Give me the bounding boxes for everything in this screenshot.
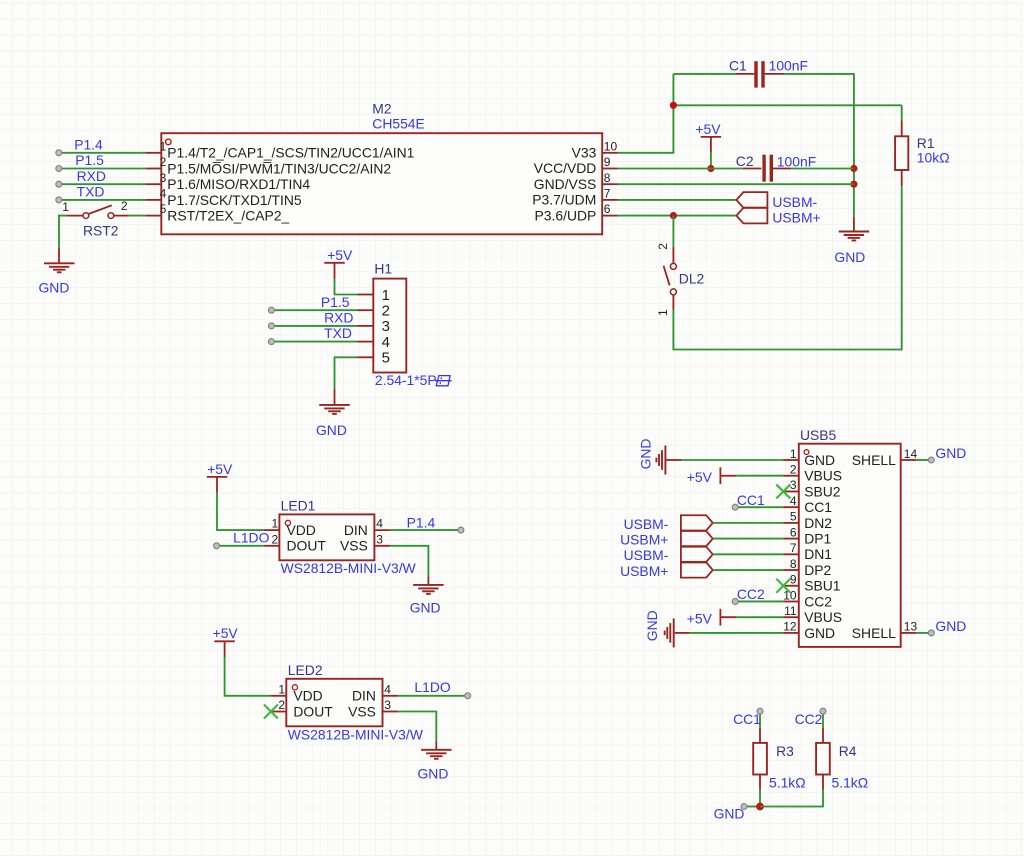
- svg-text:+5V: +5V: [695, 121, 721, 137]
- svg-text:R3: R3: [776, 743, 794, 759]
- wire USB5 pin2: [736, 475, 783, 477]
- svg-text:+5V: +5V: [687, 611, 713, 627]
- wire R1 top: [901, 105, 903, 120]
- wire R1 bottom loop: [673, 186, 901, 349]
- svg-text:GND/VSS: GND/VSS: [534, 176, 597, 192]
- svg-text:USB5: USB5: [800, 427, 837, 443]
- pin 3 H1 stub: [358, 325, 374, 327]
- wire +5V to VCC: [710, 153, 712, 169]
- svg-text:1: 1: [656, 309, 670, 316]
- svg-text:4: 4: [384, 682, 391, 696]
- ground USB5 top: [664, 446, 666, 475]
- ground H1: [319, 404, 350, 406]
- svg-text:DN2: DN2: [804, 515, 832, 531]
- wire USB5 pin7: [713, 553, 784, 555]
- svg-text:9: 9: [604, 155, 611, 169]
- svg-text:P3.6/UDP: P3.6/UDP: [535, 207, 597, 223]
- svg-text:4: 4: [160, 187, 167, 201]
- svg-text:+5V: +5V: [207, 461, 233, 477]
- power +5V USB5 bottom: [719, 609, 721, 626]
- svg-text:DL2: DL2: [679, 270, 705, 286]
- pin 11 USB5 stub: [784, 616, 799, 618]
- svg-text:CC2: CC2: [795, 711, 823, 727]
- ground stem USB5 top: [666, 459, 681, 461]
- wire VSS row: [618, 183, 854, 185]
- capacitor C1 lead right: [765, 73, 785, 75]
- svg-text:H1: H1: [374, 261, 392, 277]
- svg-text:7: 7: [790, 541, 797, 555]
- wire C1 right to GND rail: [784, 74, 854, 217]
- svg-text:P1.4: P1.4: [74, 137, 103, 153]
- svg-text:DN1: DN1: [804, 546, 832, 562]
- svg-text:2: 2: [272, 532, 279, 546]
- svg-text:1: 1: [382, 287, 390, 304]
- power +5V LED1: [207, 476, 227, 478]
- svg-text:5.1kΩ: 5.1kΩ: [769, 775, 806, 791]
- pin 1 indicator dot: [166, 139, 172, 145]
- svg-text:L1DO: L1DO: [414, 679, 450, 695]
- svg-text:GND: GND: [644, 610, 660, 641]
- wire R3 bottom: [759, 790, 761, 807]
- svg-text:C1: C1: [729, 57, 747, 73]
- svg-text:2: 2: [160, 155, 167, 169]
- svg-text:5.1kΩ: 5.1kΩ: [832, 775, 869, 791]
- pin 5 M2 left stub: [146, 215, 162, 217]
- wire UDP row: [618, 215, 737, 217]
- wire L1DO LED2: [398, 695, 468, 697]
- svg-text:VDD: VDD: [287, 522, 316, 538]
- resistor R4 lead top: [822, 728, 824, 743]
- wire UDM row: [618, 199, 737, 201]
- svg-text:P1.5: P1.5: [75, 152, 104, 168]
- ground USB5 bottom: [673, 618, 675, 647]
- ground stem RST2: [58, 248, 60, 264]
- wire USB5 pin11: [736, 616, 783, 618]
- svg-text:8: 8: [604, 171, 611, 185]
- svg-text:CC1: CC1: [804, 499, 832, 515]
- svg-text:+5V: +5V: [687, 469, 713, 485]
- node open end GND r3: [741, 804, 747, 810]
- pin 3 USB5 stub: [784, 490, 799, 492]
- svg-text:6: 6: [604, 202, 611, 216]
- node open end TXD: [56, 197, 62, 203]
- svg-text:DP1: DP1: [804, 531, 831, 547]
- svg-text:M2: M2: [372, 101, 392, 117]
- svg-text:RST/T2EX_/CAP2_: RST/T2EX_/CAP2_: [167, 208, 289, 224]
- svg-text:+5V: +5V: [213, 625, 239, 641]
- wire R3 to R4: [760, 790, 823, 807]
- svg-text:USBM-: USBM-: [624, 516, 669, 532]
- ground stem right: [853, 217, 855, 232]
- switch RST2 lever: [88, 205, 111, 214]
- led LED1 body: [279, 514, 374, 560]
- pin 7 USB5 stub: [784, 553, 799, 555]
- pin 14 USB5 stub: [901, 459, 916, 461]
- net port USBM+ top: [736, 208, 767, 224]
- wire net P1.4: [59, 152, 146, 154]
- pin 1 indicator LED2: [292, 685, 297, 690]
- svg-text:11: 11: [784, 604, 797, 618]
- svg-text:13: 13: [904, 620, 918, 634]
- node junction +5V/VCC: [707, 165, 714, 172]
- node open end P1.4: [56, 150, 62, 156]
- svg-text:L1DO: L1DO: [233, 530, 269, 546]
- svg-text:3: 3: [160, 171, 167, 185]
- svg-text:USBM+: USBM+: [620, 563, 668, 579]
- capacitor C1 plates: [754, 61, 757, 87]
- node open end CC2: [732, 598, 738, 604]
- svg-text:10: 10: [604, 139, 618, 153]
- capacitor C1 lead left: [736, 73, 754, 75]
- resistor R1 lead bottom: [901, 170, 903, 186]
- wire DL2 top: [672, 216, 674, 247]
- svg-text:DIN: DIN: [344, 522, 368, 538]
- pin 10 M2 right stub: [602, 152, 618, 154]
- node open end CC1: [732, 504, 738, 510]
- net port USBM+ usb: [681, 531, 713, 546]
- ground stem LED2: [435, 742, 437, 750]
- node open end RXD: [56, 181, 62, 187]
- svg-text:1: 1: [160, 139, 167, 153]
- svg-text:P1.5: P1.5: [321, 294, 350, 310]
- svg-text:DOUT: DOUT: [293, 703, 333, 719]
- svg-text:SHELL: SHELL: [852, 625, 896, 641]
- svg-text:GND: GND: [935, 618, 966, 634]
- wire H1 net RXD: [271, 325, 357, 327]
- wire USB5 pin8: [713, 569, 784, 571]
- node junction R3/R4 gnd: [756, 803, 764, 811]
- pin 2 LED1 stub: [264, 545, 280, 547]
- pin 8 M2 right stub: [602, 183, 618, 185]
- svg-text:7: 7: [604, 187, 611, 201]
- resistor R4 lead bottom: [822, 775, 824, 790]
- switch DL2 contact 2: [670, 263, 676, 269]
- wire RST2 left: [59, 216, 66, 248]
- ground LED2: [421, 749, 452, 751]
- svg-text:RXD: RXD: [324, 310, 353, 326]
- svg-text:P3.7/UDM: P3.7/UDM: [532, 192, 596, 208]
- svg-text:GND: GND: [714, 806, 745, 822]
- svg-text:3: 3: [382, 318, 390, 335]
- svg-text:GND: GND: [418, 765, 449, 781]
- svg-text:CC1: CC1: [733, 711, 761, 727]
- svg-text:RST2: RST2: [83, 222, 119, 238]
- power +5V LED2: [214, 640, 234, 642]
- wire SHELL bottom: [916, 632, 931, 634]
- node open end SHELL top: [928, 457, 934, 463]
- svg-text:GND: GND: [834, 249, 865, 265]
- ground stem LED1: [427, 577, 429, 585]
- switch RST2 lead right: [114, 215, 129, 217]
- node open end H1 TXD: [268, 339, 274, 345]
- pin 4 M2 left stub: [146, 199, 162, 201]
- pin 2 H1 stub: [358, 309, 374, 311]
- pin 1 LED1 stub: [264, 529, 280, 531]
- svg-text:2: 2: [278, 698, 285, 712]
- power +5V H1: [324, 262, 344, 264]
- wire +5V to H1 pin1: [335, 279, 358, 295]
- svg-text:12: 12: [783, 620, 797, 634]
- svg-text:2.54-1*5P: 2.54-1*5P: [375, 372, 437, 388]
- svg-text:2: 2: [790, 463, 797, 477]
- svg-text:P1.4/T2_/CAP1_/SCS/TIN2/UCC1/A: P1.4/T2_/CAP1_/SCS/TIN2/UCC1/AIN1: [167, 145, 414, 161]
- svg-text:LED2: LED2: [288, 662, 323, 678]
- wire +5V to LED1 VDD: [217, 493, 264, 530]
- wire H1 net TXD: [271, 341, 357, 343]
- wire LED1 VSS to gnd: [390, 546, 428, 577]
- node junction VSS/GND rail: [850, 181, 857, 188]
- svg-text:4: 4: [382, 334, 390, 351]
- svg-text:VBUS: VBUS: [804, 609, 842, 625]
- wire net TXD: [59, 199, 146, 201]
- wire top rail to R1: [673, 104, 901, 106]
- svg-text:C2: C2: [736, 153, 754, 169]
- wire RST2 to pin5: [129, 215, 146, 217]
- resistor R3 body: [753, 743, 767, 775]
- pin 9 M2 right stub: [602, 168, 618, 170]
- svg-text:GND: GND: [39, 279, 70, 295]
- svg-text:USBM-: USBM-: [624, 547, 669, 563]
- ground RST2: [44, 262, 74, 264]
- svg-text:USBM-: USBM-: [772, 194, 817, 210]
- wire LED2 VSS to gnd: [398, 712, 436, 742]
- node open end SHELL bottom: [928, 630, 934, 636]
- svg-text:DOUT: DOUT: [287, 538, 327, 554]
- power +5V main: [701, 136, 721, 138]
- svg-text:P1.5/MO̅SI/PWM̅1/TIN3/UCC2/AIN: P1.5/MO̅SI/PWM̅1/TIN3/UCC2/AIN2: [167, 160, 391, 176]
- svg-text:SBU1: SBU1: [804, 578, 841, 594]
- pin 3 LED2 stub: [383, 711, 399, 713]
- pin 7 M2 right stub: [602, 199, 618, 201]
- node junction UDP/DL2: [670, 212, 677, 219]
- pin 2 LED2 stub: [271, 711, 287, 713]
- switch RST2 contact 2: [108, 213, 114, 219]
- net port USBM+ usb: [681, 562, 713, 577]
- svg-text:CC1: CC1: [737, 492, 765, 508]
- pin 5 H1 stub: [358, 356, 374, 358]
- svg-text:V33: V33: [572, 145, 597, 161]
- pin 1 indicator USB5: [804, 450, 809, 455]
- resistor R1 lead top: [901, 120, 903, 136]
- svg-text:2: 2: [121, 199, 128, 213]
- wire USB5 pin5: [713, 522, 784, 524]
- node junction V33/C1/R1: [670, 102, 677, 109]
- ground stem H1: [334, 388, 336, 405]
- pin 4 LED2 stub: [383, 695, 399, 697]
- wire CC2 top: [822, 711, 824, 728]
- switch RST2 lead left: [66, 215, 83, 217]
- wire gnd stub r3: [744, 806, 760, 808]
- resistor R4 body: [816, 743, 830, 775]
- wire C1 left: [673, 73, 736, 75]
- svg-text:DP2: DP2: [804, 562, 831, 578]
- svg-text:GND: GND: [804, 452, 835, 468]
- ground stem USB5 bottom: [675, 632, 690, 634]
- resistor R1 body: [895, 136, 908, 170]
- pin 12 USB5 stub: [784, 632, 799, 634]
- svg-text:P1.7/SCK/TXD1/TIN5: P1.7/SCK/TXD1/TIN5: [167, 192, 302, 208]
- node open end P1.5: [56, 166, 62, 172]
- svg-text:GND: GND: [935, 445, 966, 461]
- connector USB5 body: [799, 444, 901, 647]
- pin 9 USB5 stub: [784, 585, 799, 587]
- wire L1DO LED1: [217, 545, 264, 547]
- wire USB5 CC1: [735, 506, 783, 508]
- wire CC1 top: [759, 711, 761, 728]
- svg-text:14: 14: [904, 447, 918, 461]
- svg-text:CC2: CC2: [737, 586, 765, 602]
- pin 5 USB5 stub: [784, 522, 799, 524]
- wire H1 net P1.5: [271, 309, 357, 311]
- node open end H1 RXD: [268, 323, 274, 329]
- value glyph mu: [435, 376, 452, 386]
- switch DL2 lead bottom: [672, 295, 674, 310]
- wire SHELL top: [916, 459, 931, 461]
- wire net P1.5: [59, 168, 146, 170]
- svg-text:100nF: 100nF: [769, 58, 808, 74]
- svg-text:CC2: CC2: [804, 593, 832, 609]
- node open end L1DO LED1: [214, 543, 220, 549]
- pin 2 USB5 stub: [784, 475, 799, 477]
- resistor R3 lead bottom: [759, 775, 761, 790]
- svg-text:VCC/VDD: VCC/VDD: [534, 160, 597, 176]
- svg-text:1: 1: [790, 447, 797, 461]
- pin 4 USB5 stub: [784, 506, 799, 508]
- svg-text:GND: GND: [804, 625, 835, 641]
- wire net RXD: [59, 183, 146, 185]
- svg-text:10kΩ: 10kΩ: [917, 149, 950, 165]
- svg-text:VDD: VDD: [293, 688, 322, 704]
- svg-text:1: 1: [272, 517, 279, 531]
- capacitor C2 plates: [762, 155, 765, 182]
- node open end CC2 r4: [820, 708, 826, 714]
- header H1 body: [373, 279, 406, 373]
- svg-text:100nF: 100nF: [777, 153, 816, 169]
- pin 4 LED1 stub: [374, 529, 390, 531]
- pin 8 USB5 stub: [784, 569, 799, 571]
- pin 3 M2 left stub: [146, 183, 162, 185]
- pin 1 USB5 stub: [784, 459, 799, 461]
- svg-text:VSS: VSS: [348, 703, 376, 719]
- wire USB5 CC2: [735, 600, 783, 602]
- svg-text:1: 1: [62, 200, 69, 214]
- wire +5V to LED2 VDD: [225, 657, 271, 696]
- resistor R3 lead top: [759, 728, 761, 743]
- svg-text:1: 1: [278, 682, 285, 696]
- ground right rail: [839, 231, 870, 233]
- led LED2 body: [286, 679, 382, 727]
- node open end H1 P1.5: [268, 307, 274, 313]
- IC M2 body: [161, 133, 602, 234]
- svg-text:+5V: +5V: [327, 247, 353, 263]
- svg-text:5: 5: [790, 510, 797, 524]
- switch DL2 contact 1: [670, 289, 676, 295]
- wire C2 right: [791, 168, 854, 170]
- pin 4 H1 stub: [358, 341, 374, 343]
- svg-text:USBM+: USBM+: [772, 210, 820, 226]
- switch RST2 contact 1: [83, 213, 89, 219]
- wire USB5 pin6: [713, 538, 784, 540]
- svg-text:WS2812B-MINI-V3/W: WS2812B-MINI-V3/W: [281, 560, 417, 576]
- capacitor C2 lead left: [743, 168, 762, 170]
- svg-text:GND: GND: [410, 600, 441, 616]
- pin 3 LED1 stub: [374, 545, 390, 547]
- svg-text:SHELL: SHELL: [852, 452, 896, 468]
- pin 6 M2 right stub: [602, 215, 618, 217]
- svg-text:5: 5: [160, 202, 167, 216]
- wire VCC row: [618, 168, 743, 170]
- node open end L1DO LED2: [465, 693, 471, 699]
- svg-text:4: 4: [376, 517, 383, 531]
- svg-text:WS2812B-MINI-V3/W: WS2812B-MINI-V3/W: [288, 726, 424, 742]
- pin 6 USB5 stub: [784, 538, 799, 540]
- svg-text:DIN: DIN: [352, 688, 376, 704]
- capacitor C2 lead right: [773, 168, 791, 170]
- svg-text:GND: GND: [638, 439, 654, 470]
- node open end P1.4 LED1: [458, 527, 464, 533]
- svg-text:CH554E: CH554E: [372, 115, 425, 131]
- svg-text:P1.4: P1.4: [407, 514, 436, 530]
- svg-text:RXD: RXD: [77, 168, 106, 184]
- pin 1 LED2 stub: [271, 695, 287, 697]
- svg-text:2: 2: [656, 243, 670, 250]
- svg-text:GND: GND: [316, 422, 347, 438]
- wire USB5 pin1 gnd: [682, 459, 784, 461]
- wire H1 pin5 to gnd: [335, 357, 358, 388]
- pin 2 M2 left stub: [146, 168, 162, 170]
- svg-text:10: 10: [783, 588, 797, 602]
- pin 1 indicator LED1: [285, 520, 290, 525]
- no-connect X LED2 DOUT: [264, 705, 278, 719]
- pin 13 USB5 stub: [901, 632, 916, 634]
- net port USBM- usb: [681, 515, 713, 530]
- node junction C2/GND rail: [850, 165, 857, 172]
- svg-text:VSS: VSS: [340, 538, 368, 554]
- power +5V USB5 top: [719, 467, 721, 484]
- wire USB5 pin12 gnd: [690, 632, 784, 634]
- svg-text:3: 3: [384, 698, 391, 712]
- svg-text:TXD: TXD: [77, 184, 105, 200]
- svg-text:6: 6: [790, 525, 797, 539]
- switch DL2 lead top: [672, 247, 674, 264]
- pin 1 H1 stub: [358, 294, 374, 296]
- svg-text:LED1: LED1: [281, 498, 316, 514]
- svg-text:4: 4: [790, 494, 797, 508]
- svg-text:TXD: TXD: [324, 325, 352, 341]
- no-connect X SBU2: [776, 484, 790, 498]
- net port USBM- usb: [681, 547, 713, 562]
- svg-text:USBM+: USBM+: [620, 532, 668, 548]
- wire V33 net: [618, 74, 674, 153]
- svg-text:R4: R4: [839, 743, 857, 759]
- pin 10 USB5 stub: [784, 600, 799, 602]
- ground LED1: [413, 584, 444, 586]
- svg-text:3: 3: [376, 532, 383, 546]
- net port USBM- top: [736, 192, 767, 208]
- switch DL2 lever: [664, 266, 670, 286]
- node open end CC1 r3: [757, 708, 763, 714]
- wire P1.4 LED1: [390, 529, 461, 531]
- svg-text:8: 8: [790, 557, 797, 571]
- svg-text:SBU2: SBU2: [804, 483, 841, 499]
- pin 1 M2 left stub: [146, 152, 162, 154]
- svg-text:5: 5: [382, 350, 390, 367]
- svg-text:2: 2: [382, 303, 390, 320]
- svg-text:VBUS: VBUS: [804, 468, 842, 484]
- no-connect X SBU1: [776, 579, 790, 593]
- svg-text:P1.6/MISO/RXD1/TIN4: P1.6/MISO/RXD1/TIN4: [167, 176, 310, 192]
